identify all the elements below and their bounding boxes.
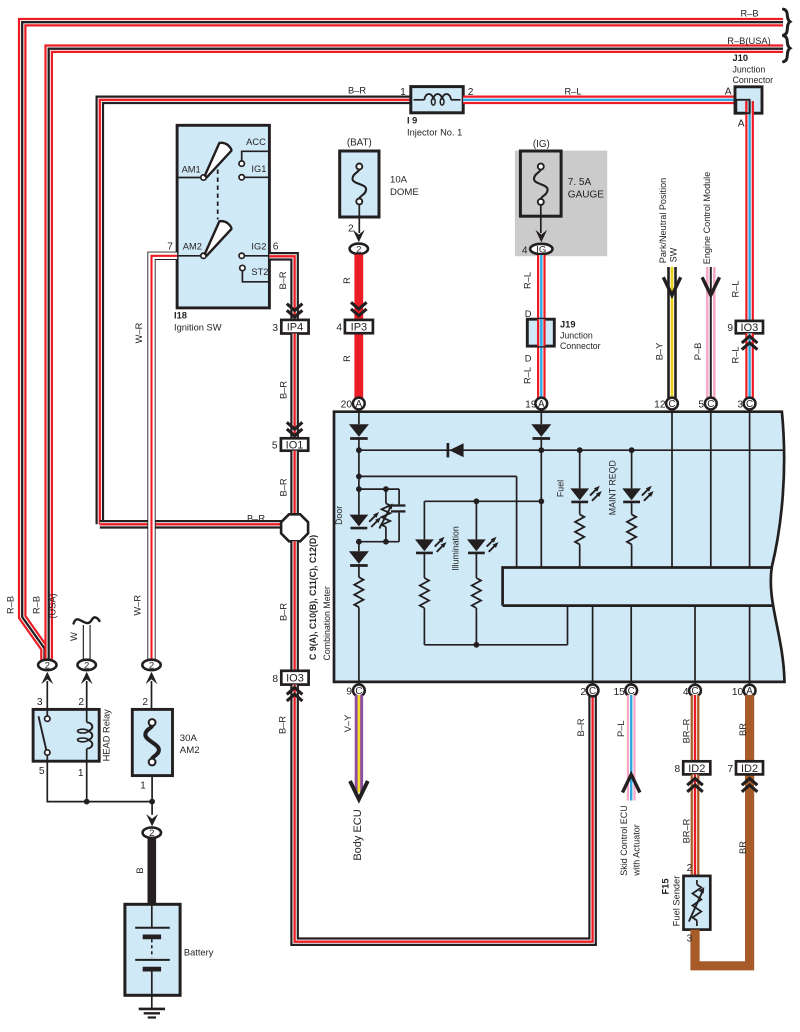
svg-text:AM2: AM2 — [180, 745, 200, 756]
arrow into battery connector — [146, 814, 158, 826]
svg-text:BR: BR — [738, 723, 748, 736]
LED Door — [350, 512, 382, 528]
horizontal bus y450 — [359, 449, 785, 451]
bottom line RC — [359, 541, 399, 543]
svg-text:A: A — [725, 87, 732, 98]
wire R-L from IO3 to meter — [745, 333, 754, 399]
wire B-R IO1 to octagon — [290, 451, 299, 515]
resistor fuel — [575, 514, 584, 544]
svg-text:ST2: ST2 — [251, 267, 268, 277]
fuse 10A DOME box — [340, 151, 379, 217]
wire B-Y — [667, 267, 677, 400]
double chevron below ID2 left — [687, 778, 703, 791]
wire pin20 vertical — [358, 410, 360, 424]
pin 3 C circle — [744, 398, 756, 411]
svg-text:5: 5 — [272, 441, 278, 452]
wire R-L through J19 — [537, 319, 546, 346]
svg-text:W: W — [69, 632, 79, 641]
svg-text:IG: IG — [536, 245, 546, 256]
fuse 10A DOME symbol — [352, 170, 366, 199]
junction connector J19 box — [527, 319, 554, 346]
wire B-R rail to injector — [100, 100, 411, 525]
connector 3 IP4 — [281, 320, 308, 334]
svg-text:R–L: R–L — [730, 346, 740, 363]
arrow below WR oval — [146, 672, 158, 684]
double chevron below ID2 right — [742, 778, 758, 791]
connector 7 ID2 — [736, 761, 763, 774]
svg-text:R–L: R–L — [730, 280, 740, 297]
svg-text:3: 3 — [272, 323, 278, 334]
diode D2 — [358, 542, 360, 552]
LED illumination 2 — [467, 537, 499, 553]
chevron arrow P-L up — [623, 775, 640, 793]
wire V-Y — [355, 695, 363, 793]
svg-text:W–R: W–R — [132, 595, 142, 616]
svg-text:Engine Control Module: Engine Control Module — [702, 172, 712, 265]
svg-text:B–R: B–R — [247, 514, 265, 524]
octagon splice node — [281, 514, 308, 541]
svg-text:I18: I18 — [174, 310, 187, 320]
svg-text:B–R: B–R — [576, 718, 586, 736]
svg-text:Door: Door — [334, 506, 344, 525]
svg-text:3: 3 — [737, 400, 743, 411]
oval connector 2 battery — [143, 828, 161, 840]
wire R fuse to meter — [354, 255, 363, 400]
svg-text:8: 8 — [272, 674, 278, 685]
svg-text:J10: J10 — [733, 53, 749, 63]
svg-text:(USA): (USA) — [48, 593, 58, 618]
oval connector 2 WR — [142, 660, 160, 672]
pin 20 A circle — [353, 398, 365, 411]
svg-text:B–R: B–R — [277, 716, 287, 734]
svg-text:J19: J19 — [560, 320, 576, 330]
svg-text:2: 2 — [687, 863, 693, 874]
svg-text:V–Y: V–Y — [343, 715, 353, 733]
svg-text:2: 2 — [142, 697, 148, 708]
svg-text:A: A — [538, 399, 545, 410]
svg-text:AM1: AM1 — [182, 164, 201, 174]
svg-text:9: 9 — [346, 687, 352, 698]
wire R-B top rail — [22, 22, 783, 660]
oval connector 2 left — [38, 660, 56, 672]
oval connector 2 W — [78, 660, 96, 672]
pin 5 C circle — [705, 398, 717, 411]
svg-text:B–R: B–R — [348, 86, 366, 96]
svg-text:ACC: ACC — [246, 137, 266, 147]
resistor illumination 2 — [472, 578, 481, 608]
svg-text:R–B: R–B — [740, 8, 758, 18]
wire R-L injector to J10 — [463, 96, 736, 105]
svg-text:D: D — [525, 309, 532, 319]
svg-text:IG2: IG2 — [251, 241, 266, 251]
svg-text:HEAD Relay: HEAD Relay — [102, 709, 112, 762]
wire pin19 vertical — [540, 410, 542, 424]
svg-text:7: 7 — [167, 241, 173, 252]
LED maint reqd — [622, 486, 654, 502]
injector I9 box — [411, 87, 463, 113]
svg-text:Park/Neutral Position: Park/Neutral Position — [658, 178, 668, 263]
svg-text:B: B — [135, 867, 145, 873]
fuse 30A AM2 symbol — [145, 726, 159, 759]
svg-text:B–R: B–R — [278, 603, 288, 621]
double chevron below IO3 — [287, 688, 303, 701]
chevron arrow on B-Y — [663, 277, 680, 295]
svg-text:IO3: IO3 — [741, 322, 759, 334]
svg-text:SW: SW — [669, 247, 679, 262]
oval connector IG — [530, 244, 552, 256]
fuel sender arrow — [689, 891, 703, 922]
svg-text:BR: BR — [738, 841, 748, 854]
svg-text:(IG): (IG) — [533, 139, 550, 150]
break squiggle W wire — [74, 617, 100, 623]
wire pin3 vertical — [749, 410, 751, 567]
svg-text:IP4: IP4 — [287, 322, 304, 334]
wire pin4 vertical inside — [694, 606, 696, 684]
wire pin5 vertical — [710, 410, 712, 567]
pin 2 C circle — [587, 685, 599, 698]
svg-text:C: C — [589, 686, 596, 697]
illumination bottom line — [424, 644, 567, 646]
svg-text:4: 4 — [522, 245, 528, 256]
diode D4 — [531, 424, 551, 438]
pin 19 A circle — [535, 398, 547, 411]
continuation brace R-B(USA) — [784, 36, 791, 62]
illumination top line — [424, 500, 541, 502]
svg-text:F15: F15 — [660, 878, 670, 894]
svg-text:B–R: B–R — [278, 381, 288, 399]
connector 8 ID2 — [683, 761, 710, 774]
svg-text:IP3: IP3 — [351, 321, 368, 333]
svg-text:GAUGE: GAUGE — [568, 190, 604, 201]
double chevron above IP4 — [287, 304, 303, 317]
wire B battery — [148, 839, 157, 906]
J10 inner square — [736, 100, 749, 113]
LED illumination 1 — [415, 537, 447, 553]
svg-text:Combination Meter: Combination Meter — [322, 586, 332, 660]
fuel sender resistor — [696, 880, 698, 885]
svg-text:3: 3 — [37, 697, 43, 708]
injector coil — [414, 99, 425, 101]
svg-text:D: D — [525, 354, 532, 364]
svg-text:Ignition SW: Ignition SW — [174, 323, 222, 333]
ground symbol — [151, 995, 153, 1009]
svg-text:2: 2 — [348, 224, 354, 235]
wire P-B — [706, 267, 716, 400]
key wedge AM1 — [205, 143, 232, 177]
node dots main column — [356, 447, 362, 453]
chevron arrow V-Y — [350, 781, 368, 799]
arrow into connector 2 — [353, 230, 365, 242]
battery cells — [151, 904, 153, 927]
svg-text:1: 1 — [78, 768, 84, 779]
fuel branch — [577, 447, 583, 453]
svg-text:IO3: IO3 — [286, 673, 304, 685]
continuation brace R-B — [784, 9, 791, 35]
pin 15 C circle — [625, 685, 637, 698]
pin 4 C circle — [689, 685, 701, 698]
svg-text:Battery: Battery — [184, 947, 214, 957]
diode D1 — [349, 424, 369, 438]
diode D3 pointing left — [449, 443, 463, 457]
connector 5 IO1 — [281, 438, 308, 451]
svg-text:R–L: R–L — [522, 272, 532, 289]
svg-text:BR–R: BR–R — [681, 718, 691, 743]
shaded background behind GAUGE fuse — [515, 151, 607, 257]
illumination branch right — [475, 501, 477, 539]
connector 9 IO3 — [736, 321, 763, 334]
combination meter body — [334, 412, 785, 682]
connector 4 IP3 — [345, 320, 373, 334]
svg-text:C 9(A), C10(B), C11(C), C12(D): C 9(A), C10(B), C11(C), C12(D) — [308, 535, 318, 660]
arrow below W oval — [81, 672, 93, 684]
svg-text:10: 10 — [732, 687, 744, 698]
wire W-R from AM2 down left side — [152, 256, 178, 660]
svg-text:(BAT): (BAT) — [347, 137, 372, 148]
wire pin10 vertical inside — [749, 606, 751, 684]
svg-text:3: 3 — [687, 934, 693, 945]
svg-text:Junction: Junction — [560, 330, 593, 340]
svg-text:7. 5A: 7. 5A — [568, 177, 592, 188]
svg-text:P–B: P–B — [693, 343, 703, 361]
arrow below left oval — [41, 672, 53, 684]
key wedge AM2 — [205, 221, 232, 255]
junction dots — [84, 799, 90, 805]
svg-text:Fuel: Fuel — [555, 480, 565, 497]
svg-text:10A: 10A — [390, 175, 408, 186]
wire pin2 vertical inside — [592, 606, 594, 684]
svg-text:2: 2 — [149, 660, 154, 671]
svg-text:Fuel Sender: Fuel Sender — [671, 876, 681, 927]
svg-text:2: 2 — [149, 828, 154, 839]
svg-text:AM2: AM2 — [183, 242, 202, 252]
wire P-L — [627, 695, 636, 801]
wire BR-R ID2 to sender — [691, 774, 700, 876]
svg-text:C: C — [707, 399, 714, 410]
illumination branch left — [423, 501, 425, 539]
junction connector J10 box — [735, 87, 762, 113]
lead from gauge fuse — [540, 205, 542, 233]
svg-text:MAINT REQD: MAINT REQD — [608, 460, 618, 515]
connector 8 IO3 — [281, 671, 308, 685]
pin 9 C circle — [353, 685, 365, 698]
svg-text:6: 6 — [273, 241, 279, 252]
svg-text:Body ECU: Body ECU — [352, 809, 364, 860]
svg-text:Junction: Junction — [733, 64, 766, 74]
pin 12 C circle — [666, 398, 678, 411]
svg-text:B–R: B–R — [278, 271, 288, 289]
svg-text:P–L: P–L — [616, 720, 626, 737]
svg-text:R–L: R–L — [522, 367, 532, 384]
svg-text:15: 15 — [613, 687, 625, 698]
wire W stub — [83, 625, 91, 660]
maint reqd branch — [629, 447, 635, 453]
double chevron above IP3 — [351, 302, 367, 315]
svg-text:5: 5 — [39, 766, 45, 777]
dashed link — [217, 170, 219, 220]
svg-text:A: A — [738, 119, 745, 130]
svg-text:7: 7 — [728, 764, 734, 775]
arrow into connector IG — [535, 230, 547, 242]
svg-text:C: C — [746, 399, 753, 410]
svg-text:with Actuator: with Actuator — [632, 824, 642, 877]
LED fuel — [570, 486, 602, 502]
svg-text:DOME: DOME — [390, 187, 419, 198]
svg-text:W–R: W–R — [134, 322, 144, 343]
wire R-B(USA) rail — [49, 49, 783, 660]
svg-text:R–B(USA): R–B(USA) — [727, 36, 770, 46]
meter inner plate box — [503, 568, 771, 606]
lead from fuse to connector — [358, 205, 360, 234]
svg-text:4: 4 — [336, 323, 342, 334]
svg-text:9: 9 — [727, 323, 733, 334]
svg-text:I 9: I 9 — [407, 116, 417, 126]
pin 10 A circle — [744, 685, 756, 698]
svg-text:IO1: IO1 — [286, 439, 304, 451]
wire BR U-bend — [695, 774, 750, 965]
variable resistor branch — [385, 489, 387, 503]
svg-text:8: 8 — [675, 764, 681, 775]
svg-text:R: R — [342, 355, 352, 362]
svg-text:R: R — [342, 277, 352, 284]
svg-text:R–B: R–B — [6, 596, 16, 614]
wire BR pin10 to ID2 — [745, 695, 754, 761]
svg-text:30A: 30A — [180, 733, 198, 744]
svg-text:R–L: R–L — [564, 87, 581, 97]
svg-text:Connector: Connector — [560, 341, 601, 351]
HEAD relay box — [33, 709, 99, 761]
svg-text:Illumination: Illumination — [451, 526, 461, 571]
relay and fuse output wires — [47, 761, 152, 801]
relay coil — [86, 709, 88, 722]
wire B-R loop to meter pin 2 — [295, 685, 593, 942]
oval connector 2 dome — [350, 244, 368, 256]
wire BR-R pin4 to ID2 — [691, 695, 700, 761]
svg-text:Skid Control ECU: Skid Control ECU — [619, 805, 629, 876]
wire pin12 vertical — [671, 410, 673, 567]
svg-text:ID2: ID2 — [741, 763, 758, 775]
battery box — [125, 904, 180, 995]
svg-text:1: 1 — [400, 87, 406, 98]
chevron arrow on P-B — [702, 277, 719, 295]
wire pin15 vertical inside — [630, 606, 632, 684]
svg-text:C: C — [668, 399, 675, 410]
svg-text:1: 1 — [140, 781, 146, 792]
svg-text:12: 12 — [654, 400, 666, 411]
svg-text:B–R: B–R — [278, 478, 288, 496]
svg-text:2: 2 — [78, 697, 84, 708]
wire B-R from IG2 to IP4 — [269, 256, 294, 320]
resistor R1 door — [358, 564, 360, 577]
fuse 30A AM2 box — [132, 709, 172, 775]
svg-text:2: 2 — [84, 660, 89, 671]
svg-text:Injector No. 1: Injector No. 1 — [407, 128, 462, 138]
variable resistor arrow — [379, 506, 391, 529]
fuel sender F15 box — [684, 876, 711, 930]
horizontal line y476 — [359, 475, 517, 477]
wire R-L gauge to meter — [537, 255, 546, 400]
svg-text:20: 20 — [341, 400, 353, 411]
horizontal line y489 RC top — [359, 488, 399, 490]
svg-text:Connector: Connector — [733, 75, 774, 85]
wire B-R octagon to IO3 — [290, 541, 299, 671]
resistor illumination 1 — [420, 578, 429, 608]
svg-text:4: 4 — [683, 687, 689, 698]
ignition switch I18 box — [177, 125, 269, 308]
svg-text:R–B: R–B — [32, 596, 42, 614]
capacitor branch — [398, 489, 400, 504]
double chevron below IO3 right — [742, 336, 758, 349]
fuse 7.5A GAUGE symbol — [534, 170, 548, 199]
svg-text:B–Y: B–Y — [655, 343, 665, 361]
resistor maint reqd — [627, 514, 636, 544]
fuse 7.5A GAUGE box — [520, 151, 561, 216]
svg-text:IG1: IG1 — [251, 164, 266, 174]
svg-text:5: 5 — [698, 400, 704, 411]
wire B-R horizontal to octagon node — [100, 520, 282, 529]
svg-text:2: 2 — [580, 687, 586, 698]
svg-text:A: A — [356, 399, 363, 410]
svg-text:2: 2 — [356, 244, 361, 255]
relay switch contact — [46, 709, 48, 716]
svg-text:2: 2 — [45, 660, 50, 671]
svg-text:ID2: ID2 — [688, 763, 705, 775]
double chevron above IO1 — [287, 422, 303, 435]
wire B-R IP4 to IO1 — [290, 334, 299, 439]
wire R-L down from J10 — [745, 101, 754, 321]
svg-text:BR–R: BR–R — [681, 818, 691, 843]
